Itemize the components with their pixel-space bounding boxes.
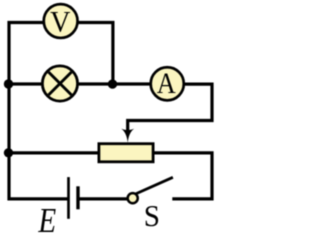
rheostat wiper arrowhead	[121, 129, 134, 143]
svg-text:E: E	[38, 202, 57, 234]
switch S: pivot circle	[128, 193, 138, 203]
wire: rheostat right to right rail down to switch contact	[154, 153, 213, 199]
battery cell: short thick plate	[76, 186, 79, 209]
junction node: voltmeter lead / lamp output	[108, 79, 117, 88]
wire: top wire + left rail + bottom-left wire	[9, 23, 68, 199]
rheostat body	[99, 144, 153, 162]
wire: battery to switch pivot	[80, 197, 128, 200]
junction node: left rail / lamp branch	[4, 79, 13, 88]
lamp circle	[42, 66, 77, 101]
lamp X cross	[49, 72, 72, 95]
wire: left node to lamp	[9, 82, 43, 85]
wire: left rail node to rheostat	[9, 151, 99, 154]
wire: ammeter out, right rail down, mid wire to wiper stem	[128, 84, 212, 131]
voltmeter V circle	[44, 4, 78, 38]
wire: lamp to ammeter	[78, 82, 151, 85]
junction node: left rail / rheostat branch	[4, 148, 13, 157]
svg-text:S: S	[144, 198, 160, 233]
ammeter A circle	[151, 67, 184, 100]
wire: voltmeter right lead down to junction	[77, 23, 113, 85]
svg-text:A: A	[157, 68, 177, 100]
svg-text:V: V	[50, 6, 70, 38]
battery cell: long plate	[67, 177, 70, 219]
switch S: lever arm	[136, 177, 173, 194]
